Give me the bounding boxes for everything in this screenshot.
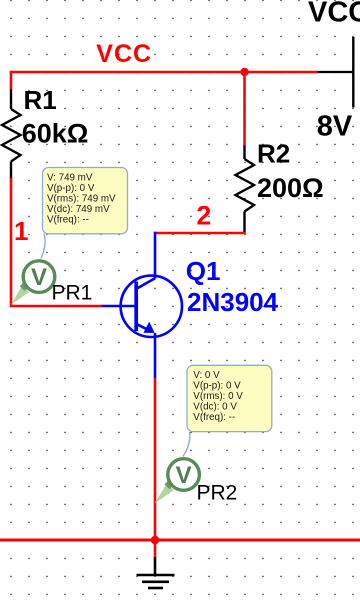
svg-text:V: 749 mV: V: 749 mV — [47, 173, 93, 184]
svg-text:60kΩ: 60kΩ — [22, 119, 89, 149]
wire bottom rail — [0, 539, 360, 542]
wire left vertical below R1 — [10, 178, 13, 306]
wire R2 vertical from junction — [243, 72, 246, 146]
resistor R2 — [236, 146, 255, 233]
wire node 2 horizontal — [155, 232, 246, 235]
resistor R1 — [2, 90, 21, 180]
collector lead — [154, 232, 157, 279]
measurement box 1 — [43, 168, 128, 234]
probe PR2 ring — [168, 459, 200, 491]
svg-text:2: 2 — [197, 201, 212, 231]
svg-text:PR1: PR1 — [52, 282, 93, 305]
power VCC symbol bar — [352, 37, 354, 108]
emitter diagonal — [136, 324, 152, 332]
base bar — [134, 282, 138, 332]
power VCC symbol lead — [317, 71, 353, 73]
svg-text:V(rms): 0 V: V(rms): 0 V — [193, 391, 243, 402]
svg-text:V(dc): 0 V: V(dc): 0 V — [193, 402, 237, 413]
svg-text:V(rms): 749 mV: V(rms): 749 mV — [47, 193, 116, 204]
svg-text:VCC: VCC — [308, 0, 360, 29]
wire left vertical to R1 top — [10, 71, 13, 90]
svg-text:2N3904: 2N3904 — [187, 287, 279, 317]
emitter arrow — [143, 322, 154, 333]
probe PR1 tail — [11, 285, 29, 305]
collector diagonal — [136, 278, 155, 289]
svg-text:V(freq): --: V(freq): -- — [193, 412, 235, 423]
svg-text:V(p-p): 0 V: V(p-p): 0 V — [47, 183, 95, 194]
ground — [137, 557, 175, 588]
svg-text:V(freq): --: V(freq): -- — [47, 214, 89, 225]
svg-text:PR2: PR2 — [197, 482, 238, 505]
measurement box 2 — [187, 365, 272, 431]
svg-text:VCC: VCC — [96, 40, 152, 68]
wire top rail VCC net — [11, 71, 317, 74]
wire base horizontal — [11, 305, 102, 306]
wire emitter vertical — [154, 378, 157, 540]
svg-text:V: V — [176, 462, 192, 489]
probe PR2 tail — [155, 483, 174, 503]
transistor Q1 — [102, 232, 183, 379]
junction dot ground node — [151, 536, 160, 545]
probe PR1 leader line — [41, 234, 45, 259]
svg-text:8V: 8V — [317, 111, 353, 143]
wire ground stub red — [154, 540, 157, 559]
svg-text:V: 0 V: V: 0 V — [193, 370, 220, 381]
probe PR2 leader line — [183, 432, 190, 457]
svg-text:1: 1 — [14, 216, 28, 246]
svg-text:Q1: Q1 — [186, 256, 221, 286]
svg-text:R1: R1 — [24, 85, 57, 115]
svg-text:V(dc): 749 mV: V(dc): 749 mV — [47, 204, 110, 215]
emitter lead — [154, 333, 157, 379]
svg-text:V: V — [31, 264, 47, 291]
junction dot VCC node — [240, 68, 248, 76]
svg-text:200Ω: 200Ω — [257, 173, 324, 203]
base lead — [102, 305, 137, 308]
svg-text:R2: R2 — [257, 139, 290, 169]
probe PR1 ring — [23, 261, 55, 293]
probe PR2 handle — [166, 483, 171, 488]
body circle — [121, 276, 182, 337]
probe PR1 handle — [22, 284, 27, 289]
svg-text:V(p-p): 0 V: V(p-p): 0 V — [193, 381, 241, 392]
